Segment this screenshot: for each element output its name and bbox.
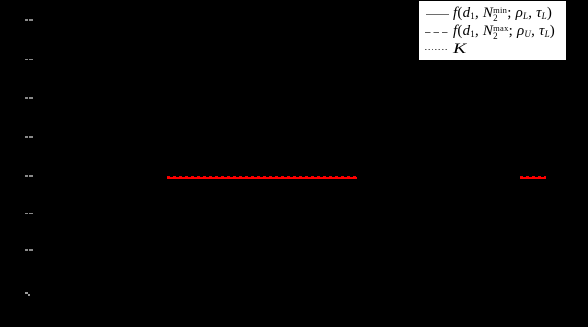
y tick label remnant 1: [25, 19, 28, 21]
y tick label remnant 3: [25, 97, 28, 99]
red line segment left (curve at K level): [167, 177, 357, 179]
y tick label remnant 6: [25, 213, 28, 215]
legend text row 2: [453, 22, 555, 42]
legend text row 3: [453, 40, 463, 58]
legend sample: dotted line: [425, 49, 449, 50]
red line segment right (curve at K level): [520, 177, 546, 179]
y tick label remnant 7: [25, 249, 28, 251]
y tick label remnant 2: [25, 59, 28, 61]
legend box: [419, 1, 566, 60]
legend text row 1: [453, 4, 552, 24]
red dashed texture on left segment: [167, 175, 357, 178]
legend sample: dashed line: [425, 32, 448, 33]
red dashed texture on right segment: [520, 175, 546, 178]
legend sample: solid line: [426, 14, 449, 15]
origin label remnant (bottom-left squiggle): [25, 292, 28, 294]
y tick label remnant 5: [25, 175, 28, 177]
y tick label remnant 4: [25, 136, 28, 138]
